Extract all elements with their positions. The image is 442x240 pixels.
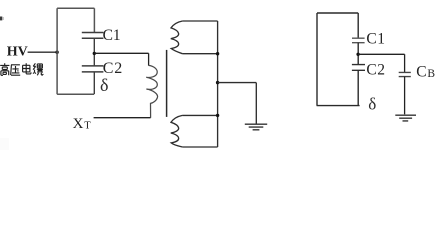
- label 高压电缆 (drawn strokes): [0, 63, 43, 75]
- capacitor C1 (right): [352, 38, 365, 43]
- secondary winding top rect: [171, 21, 218, 54]
- wire CB to ground: [404, 77, 406, 115]
- node: HV junction dot: [55, 51, 58, 54]
- secondary bus wire: [217, 21, 219, 147]
- 高: [0, 63, 9, 75]
- node: C1/C2 junction dot: [93, 52, 96, 55]
- wire HV to box: [28, 51, 57, 53]
- svg-text:HV: HV: [7, 45, 28, 60]
- ground (middle): [245, 124, 267, 130]
- svg-text:δ: δ: [368, 94, 376, 113]
- transformer primary winding: [146, 65, 157, 117]
- node: right C1/C2 junction dot: [356, 53, 359, 56]
- 缆: [33, 63, 43, 75]
- node: top rect bottom junction: [216, 52, 219, 55]
- 电: [23, 63, 31, 74]
- svg-text:X: X: [73, 116, 84, 132]
- svg-text:C1: C1: [366, 31, 385, 48]
- capacitor C2 (right): [352, 65, 365, 71]
- svg-text:C: C: [416, 63, 426, 80]
- svg-text:B: B: [427, 68, 435, 80]
- left-edge artifact mark: [0, 17, 9, 151]
- bushing box (right): [317, 13, 360, 106]
- node: ground tap junction: [216, 81, 219, 84]
- capacitor C1 (left): [82, 33, 104, 39]
- capacitor CB: [399, 72, 411, 76]
- wire junction to transformer primary: [94, 53, 148, 65]
- svg-text:T: T: [84, 121, 91, 132]
- wire to ground (middle): [218, 83, 257, 124]
- bushing box (left): [57, 8, 94, 94]
- wire X_T to primary: [94, 117, 151, 119]
- svg-text:δ: δ: [100, 75, 108, 95]
- node: bottom rect top junction: [216, 114, 219, 117]
- capacitor C2 (left): [82, 66, 104, 72]
- transformer core line: [166, 50, 168, 117]
- ground (right): [395, 115, 416, 121]
- secondary winding bottom rect: [171, 115, 218, 147]
- svg-text:C2: C2: [366, 61, 385, 78]
- svg-text:C1: C1: [103, 27, 121, 44]
- wire right junction to CB branch: [358, 54, 405, 72]
- 压: [11, 65, 21, 75]
